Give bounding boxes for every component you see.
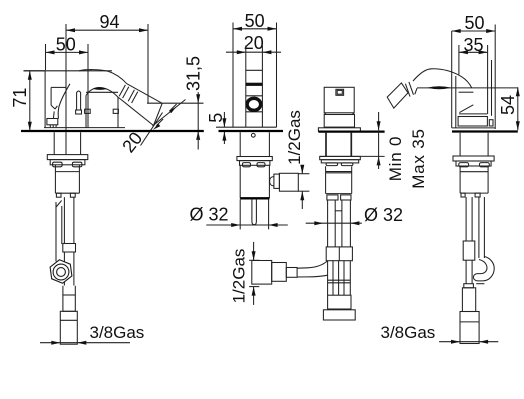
middle shank below deck: [240, 132, 269, 156]
spout inner arch: [86, 87, 118, 97]
left hose 1 (to hex nut): [56, 201, 62, 262]
right outlet lens: [427, 86, 452, 89]
label 3/8Gas (right): [381, 323, 499, 344]
spout end face: [154, 103, 163, 125]
valve shank: [326, 133, 351, 157]
dimension 20 (spout tip diameter, oblique): [118, 100, 185, 157]
valve washer stack: [320, 156, 385, 165]
svg-text:5: 5: [206, 113, 226, 123]
dimension 71 (left view height): [10, 71, 45, 131]
centerline / extension at x=66: [65, 24, 67, 155]
svg-text:Max 35: Max 35: [409, 128, 428, 189]
svg-text:31,5: 31,5: [184, 56, 204, 91]
dimension Ø 32 (middle): [190, 204, 288, 227]
right tailpiece 3/8: [460, 312, 479, 344]
dimension 35 (right view): [459, 35, 488, 114]
left deck (thick): [21, 130, 204, 132]
svg-text:94: 94: [99, 12, 119, 32]
svg-text:54: 54: [498, 95, 518, 115]
dimension Min 0 / Max 35: [377, 112, 428, 189]
valve hoses (tubes): [328, 200, 351, 247]
chord line under arch: [86, 91, 118, 93]
valve lower body: [326, 166, 352, 193]
left washer stack: [47, 155, 88, 167]
right shank: [460, 133, 488, 156]
middle deck (thick): [219, 130, 284, 132]
right body interior: [458, 105, 493, 126]
right hose 1: [463, 197, 475, 284]
left hose 2: [63, 197, 76, 285]
svg-text:Ø 32: Ø 32: [364, 205, 403, 225]
right lower body: [460, 166, 488, 197]
handle lever (left view): [47, 84, 70, 127]
svg-text:50: 50: [245, 11, 265, 31]
svg-text:1/2Gas: 1/2Gas: [230, 249, 249, 304]
spout joint lines: [119, 85, 138, 103]
svg-text:71: 71: [10, 88, 30, 108]
small tube behind handle: [76, 91, 82, 114]
middle lower body: [240, 165, 269, 198]
dimension 5 (deck plate thickness): [206, 112, 233, 144]
spout lower edge (angled tip): [118, 97, 154, 125]
right hose flare and connector: [462, 284, 475, 312]
arch legs and tabs: [85, 96, 119, 128]
dimension Ø 32 (valve): [306, 205, 403, 225]
middle body outline: [233, 52, 277, 127]
svg-text:3/8Gas: 3/8Gas: [381, 323, 436, 342]
middle spout column: [246, 46, 263, 128]
right hose 2 with hook: [473, 197, 494, 284]
middle shank lower part: [240, 199, 268, 229]
dimension 94 (left view top width): [66, 12, 148, 103]
left lower body: [55, 165, 79, 197]
label 1/2Gas (upper, outlet): [285, 110, 309, 209]
svg-text:1/2Gas: 1/2Gas: [285, 110, 304, 165]
left hose below nut: [63, 286, 75, 312]
right deck plate: [452, 128, 518, 132]
right spout lower edge: [415, 88, 474, 94]
dimension 31,5 (spout height above deck): [147, 56, 204, 150]
right body walls: [452, 31, 492, 128]
valve hose end nut: [323, 310, 355, 320]
label 1/2Gas (lower, fitting): [230, 242, 260, 305]
right spout aerator: [387, 82, 413, 108]
valve hose lower connector: [328, 295, 351, 309]
dimension 50 (right view): [452, 13, 496, 129]
middle washer stack: [237, 157, 272, 167]
extension line 54 (outlet level): [417, 87, 518, 89]
right spout outer curve: [413, 69, 472, 88]
svg-text:35: 35: [463, 35, 483, 55]
spout outlet lens (left view): [93, 87, 108, 90]
valve cartridge box: [324, 87, 354, 114]
dimension 50 (left view): [46, 34, 89, 70]
svg-text:Ø 32: Ø 32: [190, 204, 229, 224]
dimension 54: [498, 87, 520, 130]
valve deck plate: [318, 128, 384, 132]
faucet body outline (left view): [24, 70, 113, 128]
dimension 20 (middle view): [226, 33, 281, 54]
angled fitting 1/2Gas: [252, 261, 297, 285]
dimension 50 (middle view): [233, 11, 277, 52]
svg-text:Min 0: Min 0: [386, 136, 405, 182]
valve lower box: [324, 115, 354, 128]
svg-text:20: 20: [244, 33, 264, 53]
right washer stack: [453, 156, 494, 167]
svg-text:50: 50: [464, 13, 484, 33]
hex nut on hose: [50, 260, 72, 283]
valve hose connector: [326, 247, 352, 261]
svg-text:3/8Gas: 3/8Gas: [90, 323, 145, 342]
label 3/8Gas (left): [40, 323, 144, 345]
side outlet 1/2 (middle view): [270, 173, 299, 191]
spout upper edge (angled tip): [127, 84, 162, 104]
spout outer curve (left view): [79, 70, 127, 84]
middle outlet ring: [247, 98, 261, 110]
left shank: [54, 132, 80, 154]
valve hose nuts: [327, 195, 351, 200]
bent hose to fitting: [297, 261, 328, 277]
valve braided hose: [328, 261, 351, 296]
left deck plate line: [44, 127, 125, 129]
left tailpiece 3/8: [60, 311, 77, 344]
